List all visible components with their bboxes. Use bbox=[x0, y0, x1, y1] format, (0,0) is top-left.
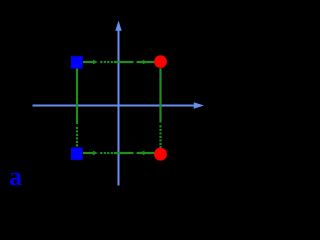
green connector bottom row: square to axis, solid with right arrowhead bbox=[83, 151, 98, 156]
point marker blue square bottom-left bbox=[71, 148, 83, 160]
green connector top row: circle to axis, solid with left arrowhead bbox=[137, 60, 155, 65]
green dotted segment bottom row left of axis bbox=[100, 152, 113, 154]
y-axis bbox=[115, 21, 121, 186]
green solid segment bottom row across axis bbox=[114, 152, 134, 154]
green vertical line left column: dotted part bbox=[76, 127, 78, 147]
green vertical line left column: solid part bbox=[76, 69, 78, 125]
label a bbox=[9, 164, 22, 190]
green connector top row: square to axis, solid with right arrowhead bbox=[83, 60, 98, 65]
x-axis bbox=[33, 102, 205, 108]
green dotted segment top row left of axis bbox=[100, 61, 113, 63]
point marker blue square top-left bbox=[71, 56, 83, 68]
green solid segment top row across axis bbox=[114, 61, 134, 63]
point marker red circle bottom-right bbox=[154, 148, 167, 161]
green connector bottom row: circle to axis, solid with left arrowhead bbox=[137, 151, 155, 156]
green vertical line right column: dotted part bbox=[159, 125, 161, 148]
point marker red circle top-right bbox=[154, 55, 167, 68]
green vertical line right column: solid part bbox=[159, 68, 161, 122]
